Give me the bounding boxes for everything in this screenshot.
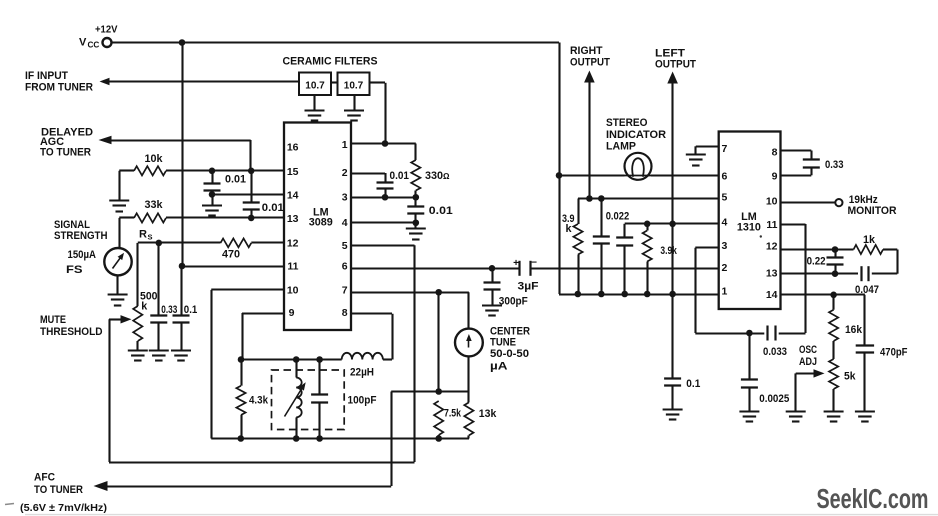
svg-text:0.33: 0.33 [161,304,177,316]
svg-text:LEFT: LEFT [655,47,685,59]
svg-text:0.1: 0.1 [184,304,198,316]
svg-text:0.22: 0.22 [807,255,826,267]
svg-text:1: 1 [342,139,348,151]
svg-text:TO TUNER: TO TUNER [40,146,91,158]
svg-text:THRESHOLD: THRESHOLD [40,326,103,338]
svg-text:3089: 3089 [309,217,333,229]
svg-text:µA: µA [490,360,508,372]
svg-text:16k: 16k [845,324,863,336]
svg-text:0.01: 0.01 [390,170,410,182]
svg-text:0.1: 0.1 [686,378,700,390]
svg-text:SeekIC.com: SeekIC.com [817,483,929,514]
svg-text:STRENGTH: STRENGTH [54,230,108,242]
svg-text:5: 5 [342,240,348,252]
svg-text:300pF: 300pF [499,295,528,307]
svg-text:4.3k: 4.3k [249,394,269,406]
svg-text:0.01: 0.01 [225,174,246,186]
svg-text:15: 15 [287,166,299,178]
svg-text:OUTPUT: OUTPUT [570,56,610,68]
svg-text:TO TUNER: TO TUNER [34,484,83,496]
svg-text:RIGHT: RIGHT [570,45,603,57]
svg-text:3.9k: 3.9k [660,245,677,257]
svg-text:10k: 10k [144,153,163,165]
svg-text:3: 3 [342,192,348,204]
svg-text:6: 6 [342,261,348,273]
svg-text:k: k [141,300,148,312]
svg-text:2: 2 [342,167,348,179]
svg-text:R: R [139,228,147,240]
svg-text:0.047: 0.047 [855,284,879,296]
svg-text:4: 4 [722,217,728,229]
svg-text:4: 4 [342,217,348,229]
svg-text:0.033: 0.033 [763,346,787,358]
svg-text:3µF: 3µF [518,280,539,292]
svg-text:16: 16 [287,142,299,154]
svg-text:6: 6 [722,170,728,182]
svg-text:470: 470 [222,249,240,261]
svg-text:3: 3 [722,240,728,252]
svg-text:13k: 13k [479,408,497,420]
svg-text:−: − [531,258,537,269]
svg-text:CERAMIC FILTERS: CERAMIC FILTERS [283,55,378,67]
svg-text:150µA: 150µA [68,249,97,261]
svg-text:CENTER: CENTER [490,325,530,337]
svg-text:STEREO: STEREO [606,117,648,129]
svg-text:9: 9 [289,307,295,319]
svg-text:100pF: 100pF [348,394,377,406]
svg-text:2: 2 [722,262,728,274]
svg-text:IF INPUT: IF INPUT [25,70,68,82]
svg-text:470pF: 470pF [880,347,908,359]
svg-text:5k: 5k [844,371,856,383]
svg-text:1310: 1310 [737,222,761,234]
svg-text:7.5k: 7.5k [444,408,462,420]
svg-text:22µH: 22µH [350,367,374,379]
svg-text:14: 14 [287,189,299,201]
svg-text:FS: FS [66,264,83,276]
svg-text:5: 5 [722,192,728,204]
svg-text:0.01: 0.01 [262,202,284,214]
svg-text:11: 11 [287,261,298,273]
svg-text:1: 1 [722,286,728,298]
svg-text:13: 13 [766,268,778,280]
svg-text:11: 11 [766,219,777,231]
svg-text:12: 12 [766,240,778,252]
svg-text:50-0-50: 50-0-50 [490,348,529,360]
svg-text:OUTPUT: OUTPUT [655,59,696,71]
svg-text:8: 8 [342,307,348,319]
svg-text:CC: CC [88,41,100,50]
svg-text:13: 13 [287,213,299,225]
svg-text:TUNE: TUNE [490,337,516,349]
svg-text:+: + [513,258,519,269]
svg-text:10.7: 10.7 [305,81,325,92]
svg-text:10: 10 [766,195,778,207]
svg-text:0.022: 0.022 [606,211,630,223]
svg-text:7: 7 [722,143,728,155]
svg-text:MUTE: MUTE [40,314,66,326]
svg-text:0.33: 0.33 [825,159,844,171]
svg-text:8: 8 [772,147,778,159]
svg-text:12: 12 [287,237,299,249]
svg-text:7: 7 [342,284,348,296]
svg-text:S: S [148,232,153,241]
svg-text:AFC: AFC [34,471,55,483]
svg-text:ADJ: ADJ [799,356,817,368]
svg-text:9: 9 [772,170,778,182]
svg-text:0.01: 0.01 [429,205,453,217]
svg-text:14: 14 [766,289,778,301]
svg-text:k: k [566,223,573,235]
svg-text:OSC: OSC [799,344,817,356]
svg-text:INDICATOR: INDICATOR [606,129,666,141]
svg-text:(5.6V ± 7mV/kHz): (5.6V ± 7mV/kHz) [20,503,107,514]
svg-text:SIGNAL: SIGNAL [54,219,90,231]
svg-text:LAMP: LAMP [606,141,636,153]
svg-text:330Ω: 330Ω [425,170,450,182]
svg-text:FROM TUNER: FROM TUNER [25,81,93,93]
svg-text:10: 10 [287,284,299,296]
svg-text:V: V [79,37,87,49]
svg-text:10.7: 10.7 [344,81,364,92]
svg-text:MONITOR: MONITOR [848,205,897,217]
svg-text:33k: 33k [144,199,163,211]
svg-text:1k: 1k [863,234,876,246]
svg-text:+12V: +12V [95,25,118,36]
svg-text:0.0025: 0.0025 [759,393,789,405]
